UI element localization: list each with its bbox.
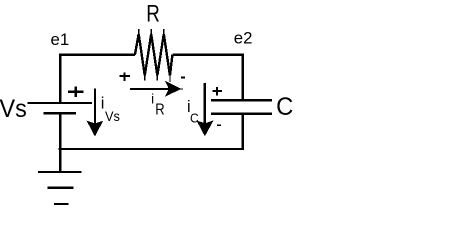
capacitor C top plate — [211, 99, 272, 102]
wire left vertical lower (Vs - plate down to ground) — [59, 113, 62, 172]
svg-text:C: C — [276, 93, 293, 121]
resistor apex tick peak 1 — [138, 29, 140, 36]
resistor R zigzag body — [135, 34, 173, 76]
wire top-left horizontal (node e1 to resistor) — [59, 54, 135, 57]
wire bottom horizontal — [59, 148, 244, 150]
current arrow i_R shaft — [130, 88, 172, 90]
resistor apex tick valley 3 — [169, 73, 171, 82]
svg-text:Vs: Vs — [0, 95, 27, 123]
capacitor polarity plus sign — [212, 87, 222, 96]
current arrow i_R stealth head — [166, 82, 181, 96]
svg-text:C: C — [190, 111, 199, 126]
wire right vertical upper (e2 corner down to capacitor top plate) — [241, 54, 243, 101]
resistor apex tick valley 2 — [156, 73, 158, 80]
svg-text:Vs: Vs — [105, 108, 120, 124]
resistor apex tick peak 3 — [163, 29, 165, 36]
ground symbol line 1 (top) — [38, 171, 82, 173]
svg-text:e1: e1 — [51, 30, 70, 49]
ground symbol line 3 (bottom) — [54, 203, 68, 205]
svg-text:i: i — [101, 95, 105, 113]
current arrow i_Vs shaft — [94, 88, 96, 128]
voltage source Vs battery bottom plate (-) — [44, 112, 76, 115]
ground symbol line 2 (middle) — [48, 187, 74, 189]
wire right vertical lower (capacitor bottom plate to bottom wire) — [241, 114, 243, 150]
wire top-right horizontal (resistor to node e2) — [172, 54, 244, 57]
wire left vertical upper (e1 corner down to Vs + plate) — [59, 54, 62, 103]
voltage source Vs battery top plate (+) — [28, 102, 92, 104]
current arrow i_C shaft — [204, 83, 206, 128]
resistor polarity plus sign — [119, 72, 130, 81]
capacitor C bottom plate — [211, 112, 272, 115]
capacitor polarity minus sign — [217, 124, 221, 126]
current arrow i_R tip spike — [176, 88, 183, 90]
current arrow i_Vs stealth head — [87, 121, 102, 135]
svg-text:e2: e2 — [234, 29, 253, 48]
svg-text:R: R — [146, 0, 160, 27]
svg-text:R: R — [155, 101, 164, 118]
resistor apex tick peak 2 — [150, 29, 152, 36]
svg-text:i: i — [151, 92, 154, 107]
resistor polarity minus sign — [181, 76, 185, 78]
battery polarity plus sign — [68, 87, 84, 98]
resistor apex tick valley 1 — [144, 73, 146, 80]
current arrow i_C stealth head — [197, 121, 212, 135]
